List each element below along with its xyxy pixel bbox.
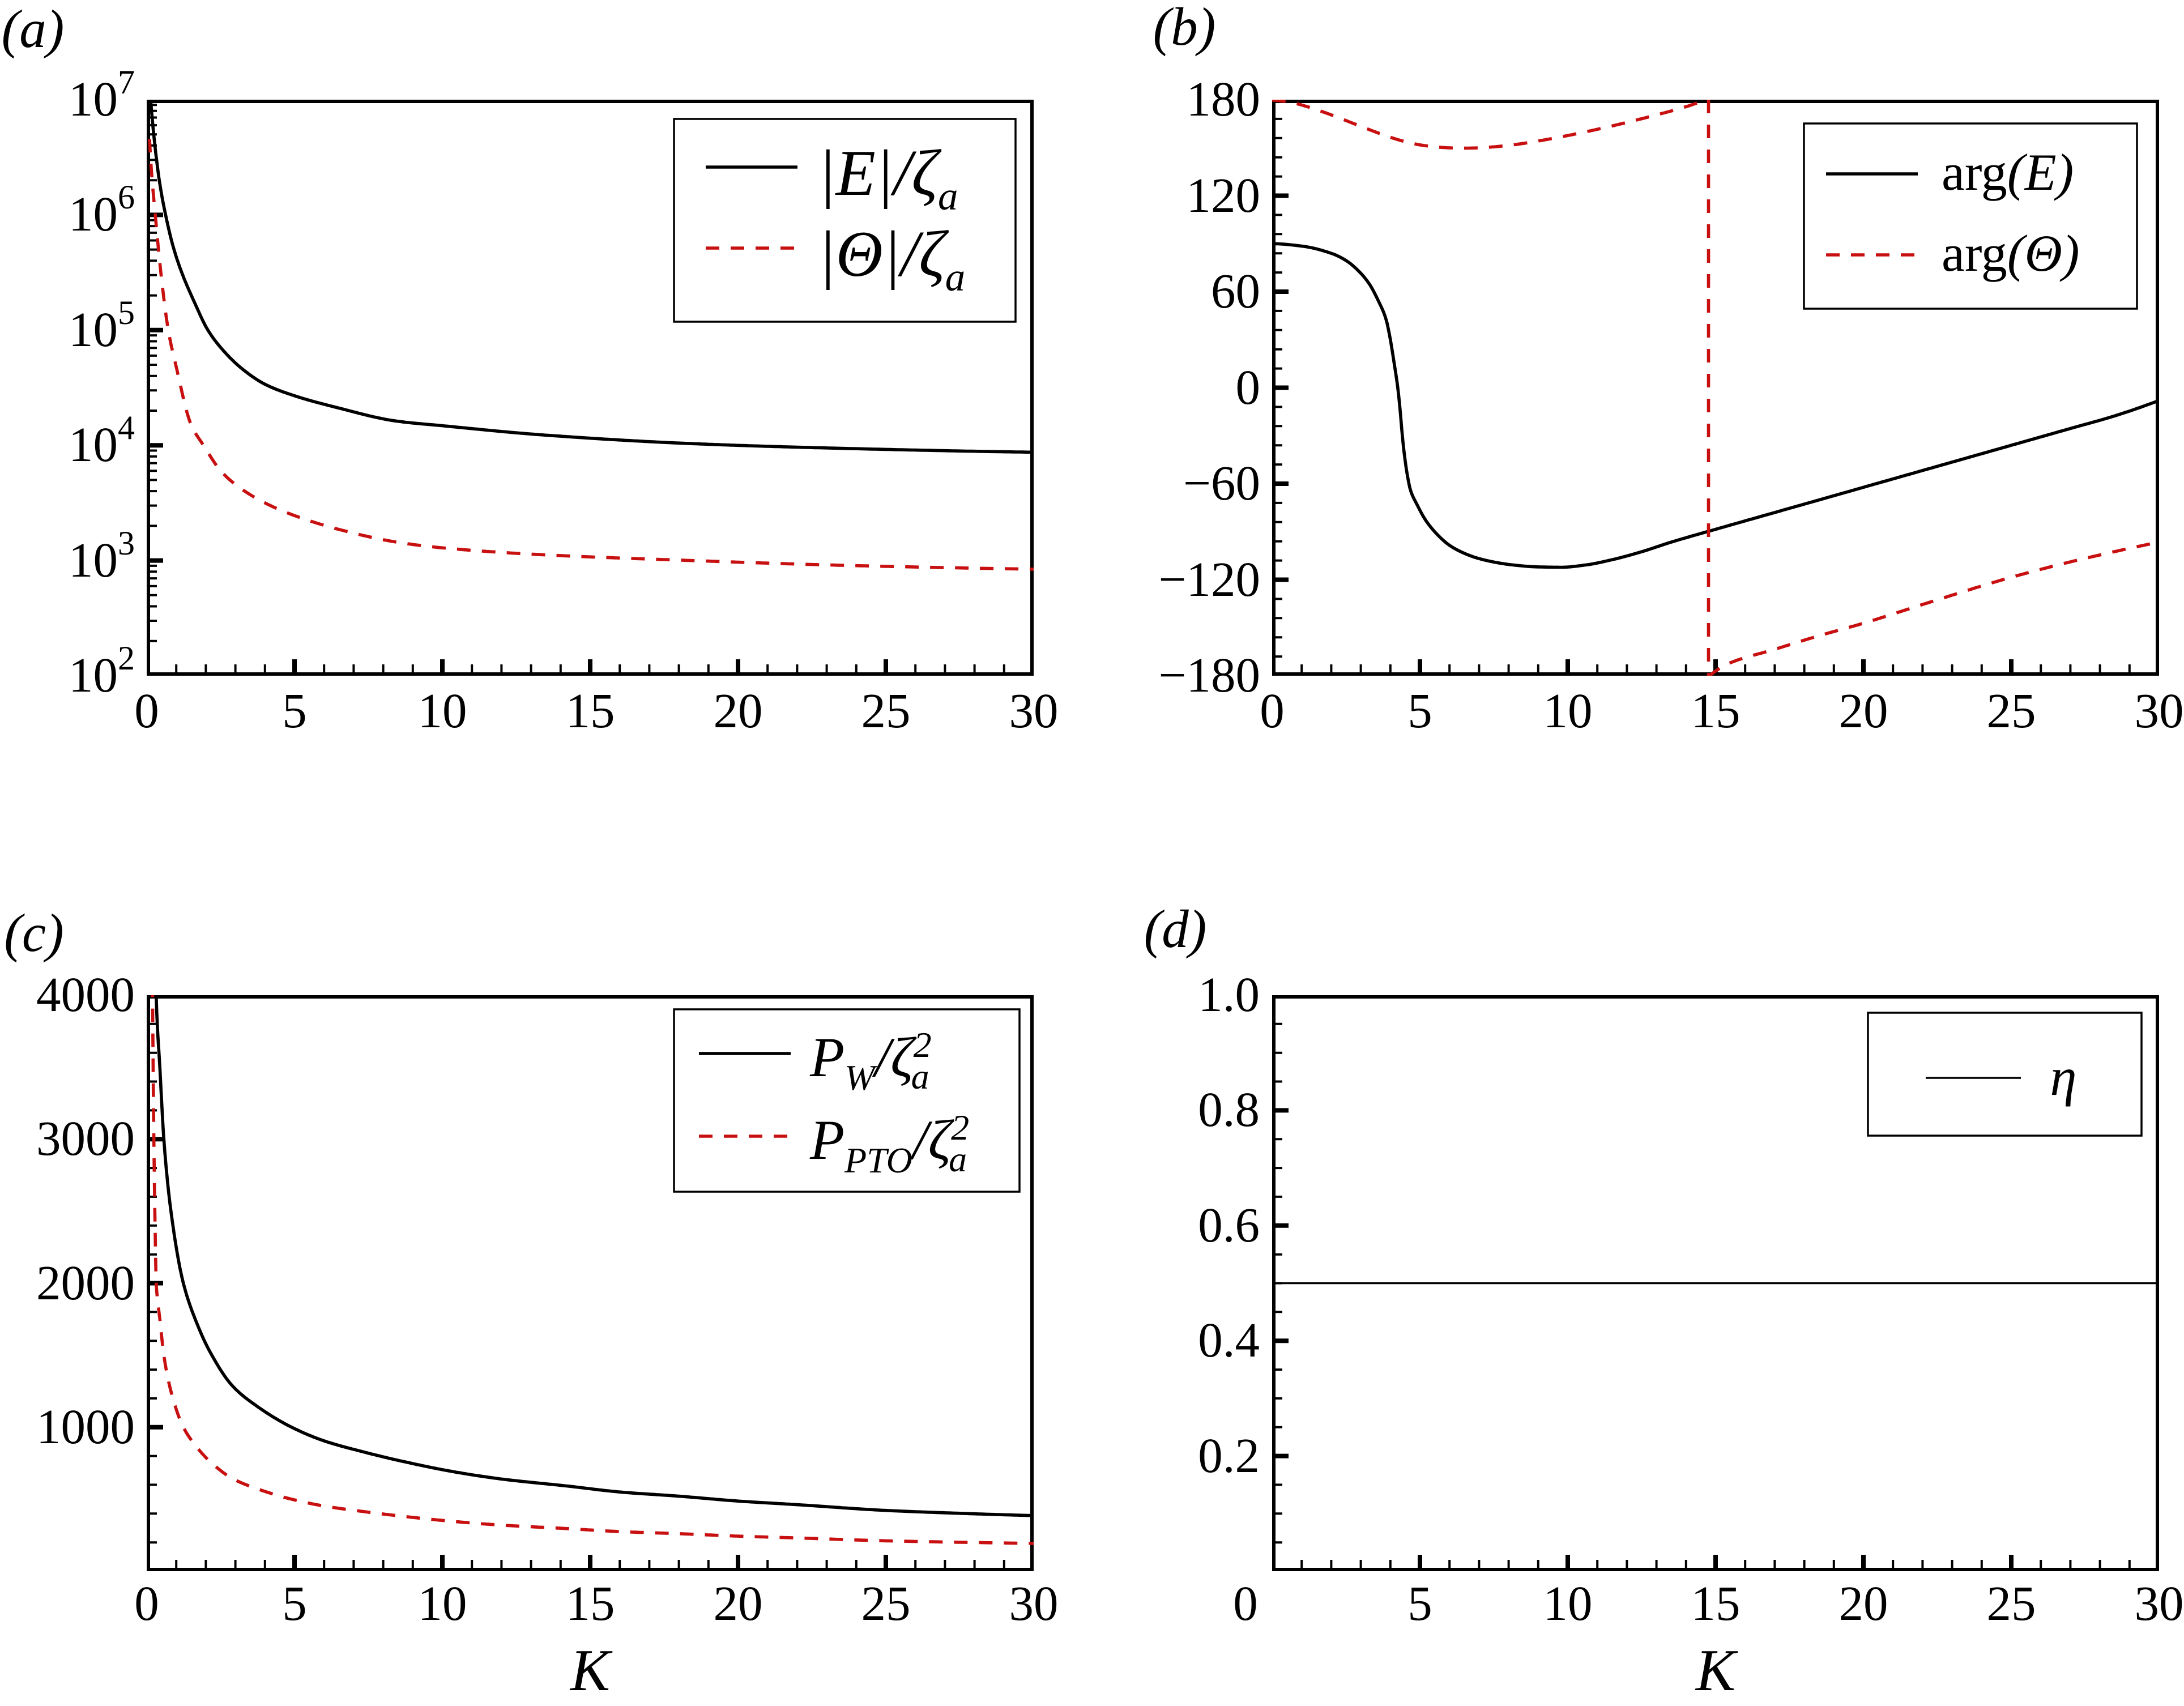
svg-text:K: K [569, 1637, 613, 1703]
svg-text:4000: 4000 [36, 967, 135, 1022]
svg-text:0: 0 [134, 683, 159, 738]
panel (b) y ticks [1274, 196, 1289, 580]
panel (b) legend box [1804, 123, 2137, 309]
svg-text:20: 20 [1839, 683, 1888, 738]
svg-text:(b): (b) [1153, 0, 1216, 57]
panel (b) arg(Theta) vertical jump dashed line at K=14.76 [1707, 100, 1710, 676]
svg-text:30: 30 [1009, 683, 1059, 738]
svg-text:0: 0 [1260, 683, 1285, 738]
panel (d) legend box [1868, 1013, 2142, 1136]
svg-text:180: 180 [1187, 71, 1261, 126]
legend (b) dashed line sample [1826, 253, 1918, 257]
svg-text:(d): (d) [1144, 899, 1207, 959]
panel (d) curve eta = 0.5 horizontal line [1272, 1282, 2159, 1285]
svg-text:25: 25 [1987, 1576, 2036, 1631]
svg-text:15: 15 [1691, 683, 1741, 738]
svg-text:30: 30 [2135, 1576, 2184, 1631]
legend (c) dashed line sample [699, 1135, 791, 1138]
legend (c) solid line sample [699, 1052, 791, 1055]
svg-text:10: 10 [1543, 683, 1593, 738]
svg-text:30: 30 [2135, 683, 2184, 738]
svg-text:20: 20 [1839, 1576, 1888, 1631]
panel (a) x ticks [295, 659, 886, 674]
svg-text:0: 0 [134, 1576, 159, 1631]
svg-text:10: 10 [418, 1576, 467, 1631]
svg-text:|E|/ζa: |E|/ζa [818, 137, 958, 219]
panel (c) legend box [674, 1009, 1020, 1192]
panel (c) x ticks [295, 1555, 886, 1569]
panel (a) curve dashed red |Theta|/zeta_a [150, 139, 1034, 569]
panel (b) x ticks [1420, 659, 2011, 674]
panel (b) curve solid black arg(E) [1272, 244, 2159, 567]
legend (a) solid line sample [706, 165, 797, 169]
svg-text:|Θ|/ζa: |Θ|/ζa [818, 218, 965, 300]
svg-text:1.0: 1.0 [1198, 967, 1260, 1022]
svg-text:1000: 1000 [36, 1399, 135, 1454]
legend (a) dashed line sample [706, 246, 797, 250]
svg-text:(c): (c) [4, 903, 63, 963]
panel (a) legend box [674, 119, 1016, 322]
svg-text:15: 15 [566, 1576, 615, 1631]
svg-text:25: 25 [1987, 683, 2036, 738]
legend (d) solid line sample [1926, 1077, 2021, 1079]
svg-text:20: 20 [714, 1576, 763, 1631]
svg-text:5: 5 [1407, 1576, 1432, 1631]
svg-text:−60: −60 [1183, 455, 1260, 510]
svg-text:arg(Θ): arg(Θ) [1942, 224, 2080, 282]
panel (b) frame [1274, 101, 2157, 674]
svg-text:5: 5 [282, 1576, 307, 1631]
svg-text:15: 15 [1691, 1576, 1741, 1631]
svg-text:60: 60 [1211, 263, 1260, 318]
panel (a) frame [148, 101, 1032, 674]
svg-text:(a): (a) [2, 0, 65, 59]
svg-text:−120: −120 [1158, 552, 1260, 607]
svg-text:η: η [2050, 1047, 2076, 1107]
panel (d) y ticks [1274, 1110, 1289, 1456]
svg-text:0.6: 0.6 [1198, 1197, 1260, 1252]
svg-text:0: 0 [1233, 1576, 1258, 1631]
svg-text:3000: 3000 [36, 1111, 135, 1166]
panel (c) curve dashed red P_PTO/zeta_a^2 [151, 784, 1034, 1543]
svg-text:25: 25 [861, 1576, 911, 1631]
svg-text:20: 20 [714, 683, 763, 738]
panel (a) y ticks [148, 215, 163, 560]
svg-text:−180: −180 [1158, 647, 1260, 702]
svg-text:2000: 2000 [36, 1255, 135, 1310]
svg-text:10: 10 [418, 683, 467, 738]
svg-text:120: 120 [1187, 168, 1261, 223]
panel (d) x ticks [1420, 1555, 2011, 1569]
panel (c) curve solid black P_W/zeta_a^2 [153, 765, 1034, 1516]
svg-text:0.4: 0.4 [1198, 1312, 1260, 1367]
panel (c) y ticks [148, 1139, 163, 1427]
svg-text:0.2: 0.2 [1198, 1428, 1260, 1483]
svg-text:15: 15 [566, 683, 615, 738]
panel (d) frame [1274, 997, 2157, 1569]
svg-text:25: 25 [861, 683, 911, 738]
svg-text:K: K [1695, 1637, 1738, 1703]
svg-text:0: 0 [1236, 360, 1261, 415]
panel (b) curve dashed red arg(Theta) upper branch [1272, 99, 1708, 148]
panel (b) curve dashed red arg(Theta) lower branch [1709, 542, 2160, 676]
panel (c) frame [148, 997, 1032, 1569]
svg-text:5: 5 [282, 683, 307, 738]
svg-text:5: 5 [1407, 683, 1432, 738]
svg-text:10: 10 [1543, 1576, 1593, 1631]
panel (a) curve solid black |E|/zeta_a [150, 93, 1034, 453]
svg-text:0.8: 0.8 [1198, 1082, 1260, 1137]
legend (b) solid line sample [1826, 172, 1918, 176]
svg-text:30: 30 [1009, 1576, 1059, 1631]
svg-text:arg(E): arg(E) [1942, 143, 2074, 201]
